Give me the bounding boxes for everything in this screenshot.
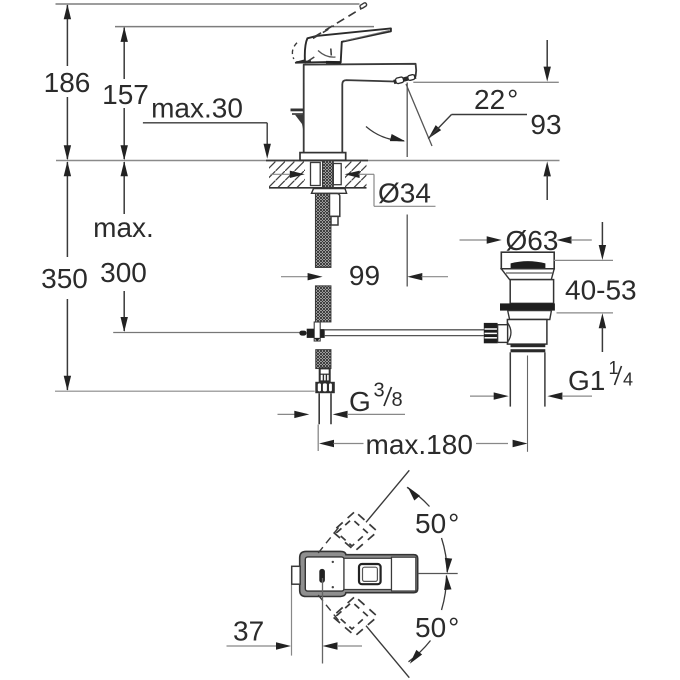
bottom view: center axis right [418, 573, 458, 575]
50deg upper swing line [366, 470, 409, 522]
countertop cross-section hatch left [269, 161, 305, 187]
dimension 186 [44, 4, 91, 160]
spout outlet reference line [413, 81, 559, 83]
dimension 40-53 [553, 222, 637, 352]
aerator (22deg tilted outlet) [394, 74, 416, 84]
drain pipe single line left [113, 332, 301, 334]
countertop cross-section hatch right [345, 161, 367, 187]
svg-text:Ø63: Ø63 [506, 225, 559, 256]
supply hose braided segment A [316, 193, 331, 267]
dimension max.180 [318, 425, 527, 461]
upper dashed diamonds (rotated handle) [333, 512, 378, 552]
svg-text:max.30: max.30 [151, 93, 243, 124]
tee hose crossing tube [314, 322, 320, 341]
tee fitting right nut [320, 329, 324, 338]
reference line 157 (closed handle height) [115, 26, 374, 28]
svg-text:40-53: 40-53 [565, 275, 637, 306]
tee fitting left bullet [299, 331, 306, 336]
svg-text:max.180: max.180 [366, 429, 473, 460]
G3/8 nut [315, 368, 335, 393]
bottom view: handle pin [319, 569, 325, 583]
pop-up waste plug cap [501, 252, 554, 269]
supply hose braided segment C [316, 350, 331, 369]
mounting stud [330, 194, 340, 217]
bottom view: handle center extension [322, 578, 324, 664]
svg-text:37: 37 [233, 616, 264, 647]
knob connector [498, 325, 508, 343]
handle lever raised (dashed) [314, 6, 366, 37]
hose end tube [319, 393, 331, 424]
dimension 350 [41, 161, 88, 391]
svg-text:350: 350 [41, 263, 88, 294]
bottom view: spout mid section [344, 558, 392, 589]
knurled adjuster knob [484, 323, 498, 343]
svg-text:186: 186 [44, 67, 91, 98]
50deg upper arc [442, 538, 448, 572]
faucet body (side view) [304, 64, 417, 153]
tee lower wedge [314, 338, 321, 341]
svg-text:8: 8 [392, 389, 403, 411]
drain body [507, 320, 547, 345]
svg-text:4: 4 [623, 370, 633, 390]
drain neck [510, 280, 553, 304]
svg-text:Ø34: Ø34 [378, 178, 431, 209]
svg-text:300: 300 [100, 257, 147, 288]
plug funnel [501, 269, 554, 280]
22deg label leader [425, 125, 441, 141]
bottom view: tab edge extension [291, 585, 293, 656]
dimension max.300 [93, 161, 154, 332]
water stream vertical line [406, 83, 408, 158]
svg-text:99: 99 [349, 260, 380, 291]
bottom view: housing inner [305, 557, 344, 591]
countertop bottom line [269, 187, 367, 189]
svg-text:157: 157 [102, 79, 149, 110]
svg-text:50°: 50° [415, 612, 459, 643]
dimension 37 [227, 616, 363, 650]
svg-text:93: 93 [530, 109, 561, 140]
bottom view: aerator square [359, 564, 381, 584]
dimension Ø34 [271, 171, 436, 209]
bottom view: handle housing outer [300, 551, 418, 596]
svg-text:22°: 22° [474, 84, 518, 115]
top reference line (open handle height) [56, 3, 360, 5]
bottom view: tiny dots [332, 561, 334, 563]
svg-text:G1: G1 [568, 365, 605, 396]
50deg lower arc [442, 576, 447, 611]
drain inlet curve [507, 323, 511, 343]
dimension max.30 [143, 93, 271, 159]
bottom view: spout end section [392, 557, 416, 591]
drain pipe double line [325, 329, 484, 331]
svg-text:max.: max. [93, 212, 154, 243]
svg-text:G: G [349, 386, 371, 417]
dimension 93 [530, 40, 561, 200]
22deg arc with arrow [366, 127, 404, 141]
tailpipe [509, 352, 511, 406]
lower dashed diamonds (rotated handle) [333, 597, 378, 637]
dimension G3/8 [278, 380, 406, 419]
dimension G1 1/4 [470, 358, 633, 400]
water stream extension below counter [406, 215, 408, 287]
faucet base plate [300, 153, 346, 161]
line at 350 bottom [55, 390, 315, 392]
drain flange (black) [500, 303, 555, 310]
dimension Ø63 [460, 225, 592, 256]
mounting washer under counter [312, 189, 347, 194]
handle swing dashed arc [292, 43, 297, 59]
side clip on body [291, 109, 305, 112]
svg-text:1: 1 [609, 358, 619, 378]
countertop surface line [56, 160, 560, 162]
supply hose braided segment B [316, 286, 331, 322]
bottom view: left tab [292, 566, 301, 584]
shank tubes in counter hole [311, 163, 321, 186]
tailpipe centerline [527, 356, 529, 452]
dimension 99 [281, 260, 448, 291]
drain skirt [508, 311, 552, 320]
water stream 22deg line [406, 84, 432, 146]
dimension 157 [102, 27, 149, 160]
tee fitting left nut [307, 329, 314, 338]
svg-text:3: 3 [374, 380, 385, 402]
svg-text:50°: 50° [415, 508, 459, 539]
handle lever (closed position) [296, 28, 391, 62]
50deg lower swing line [366, 626, 409, 678]
union nut [511, 344, 546, 347]
